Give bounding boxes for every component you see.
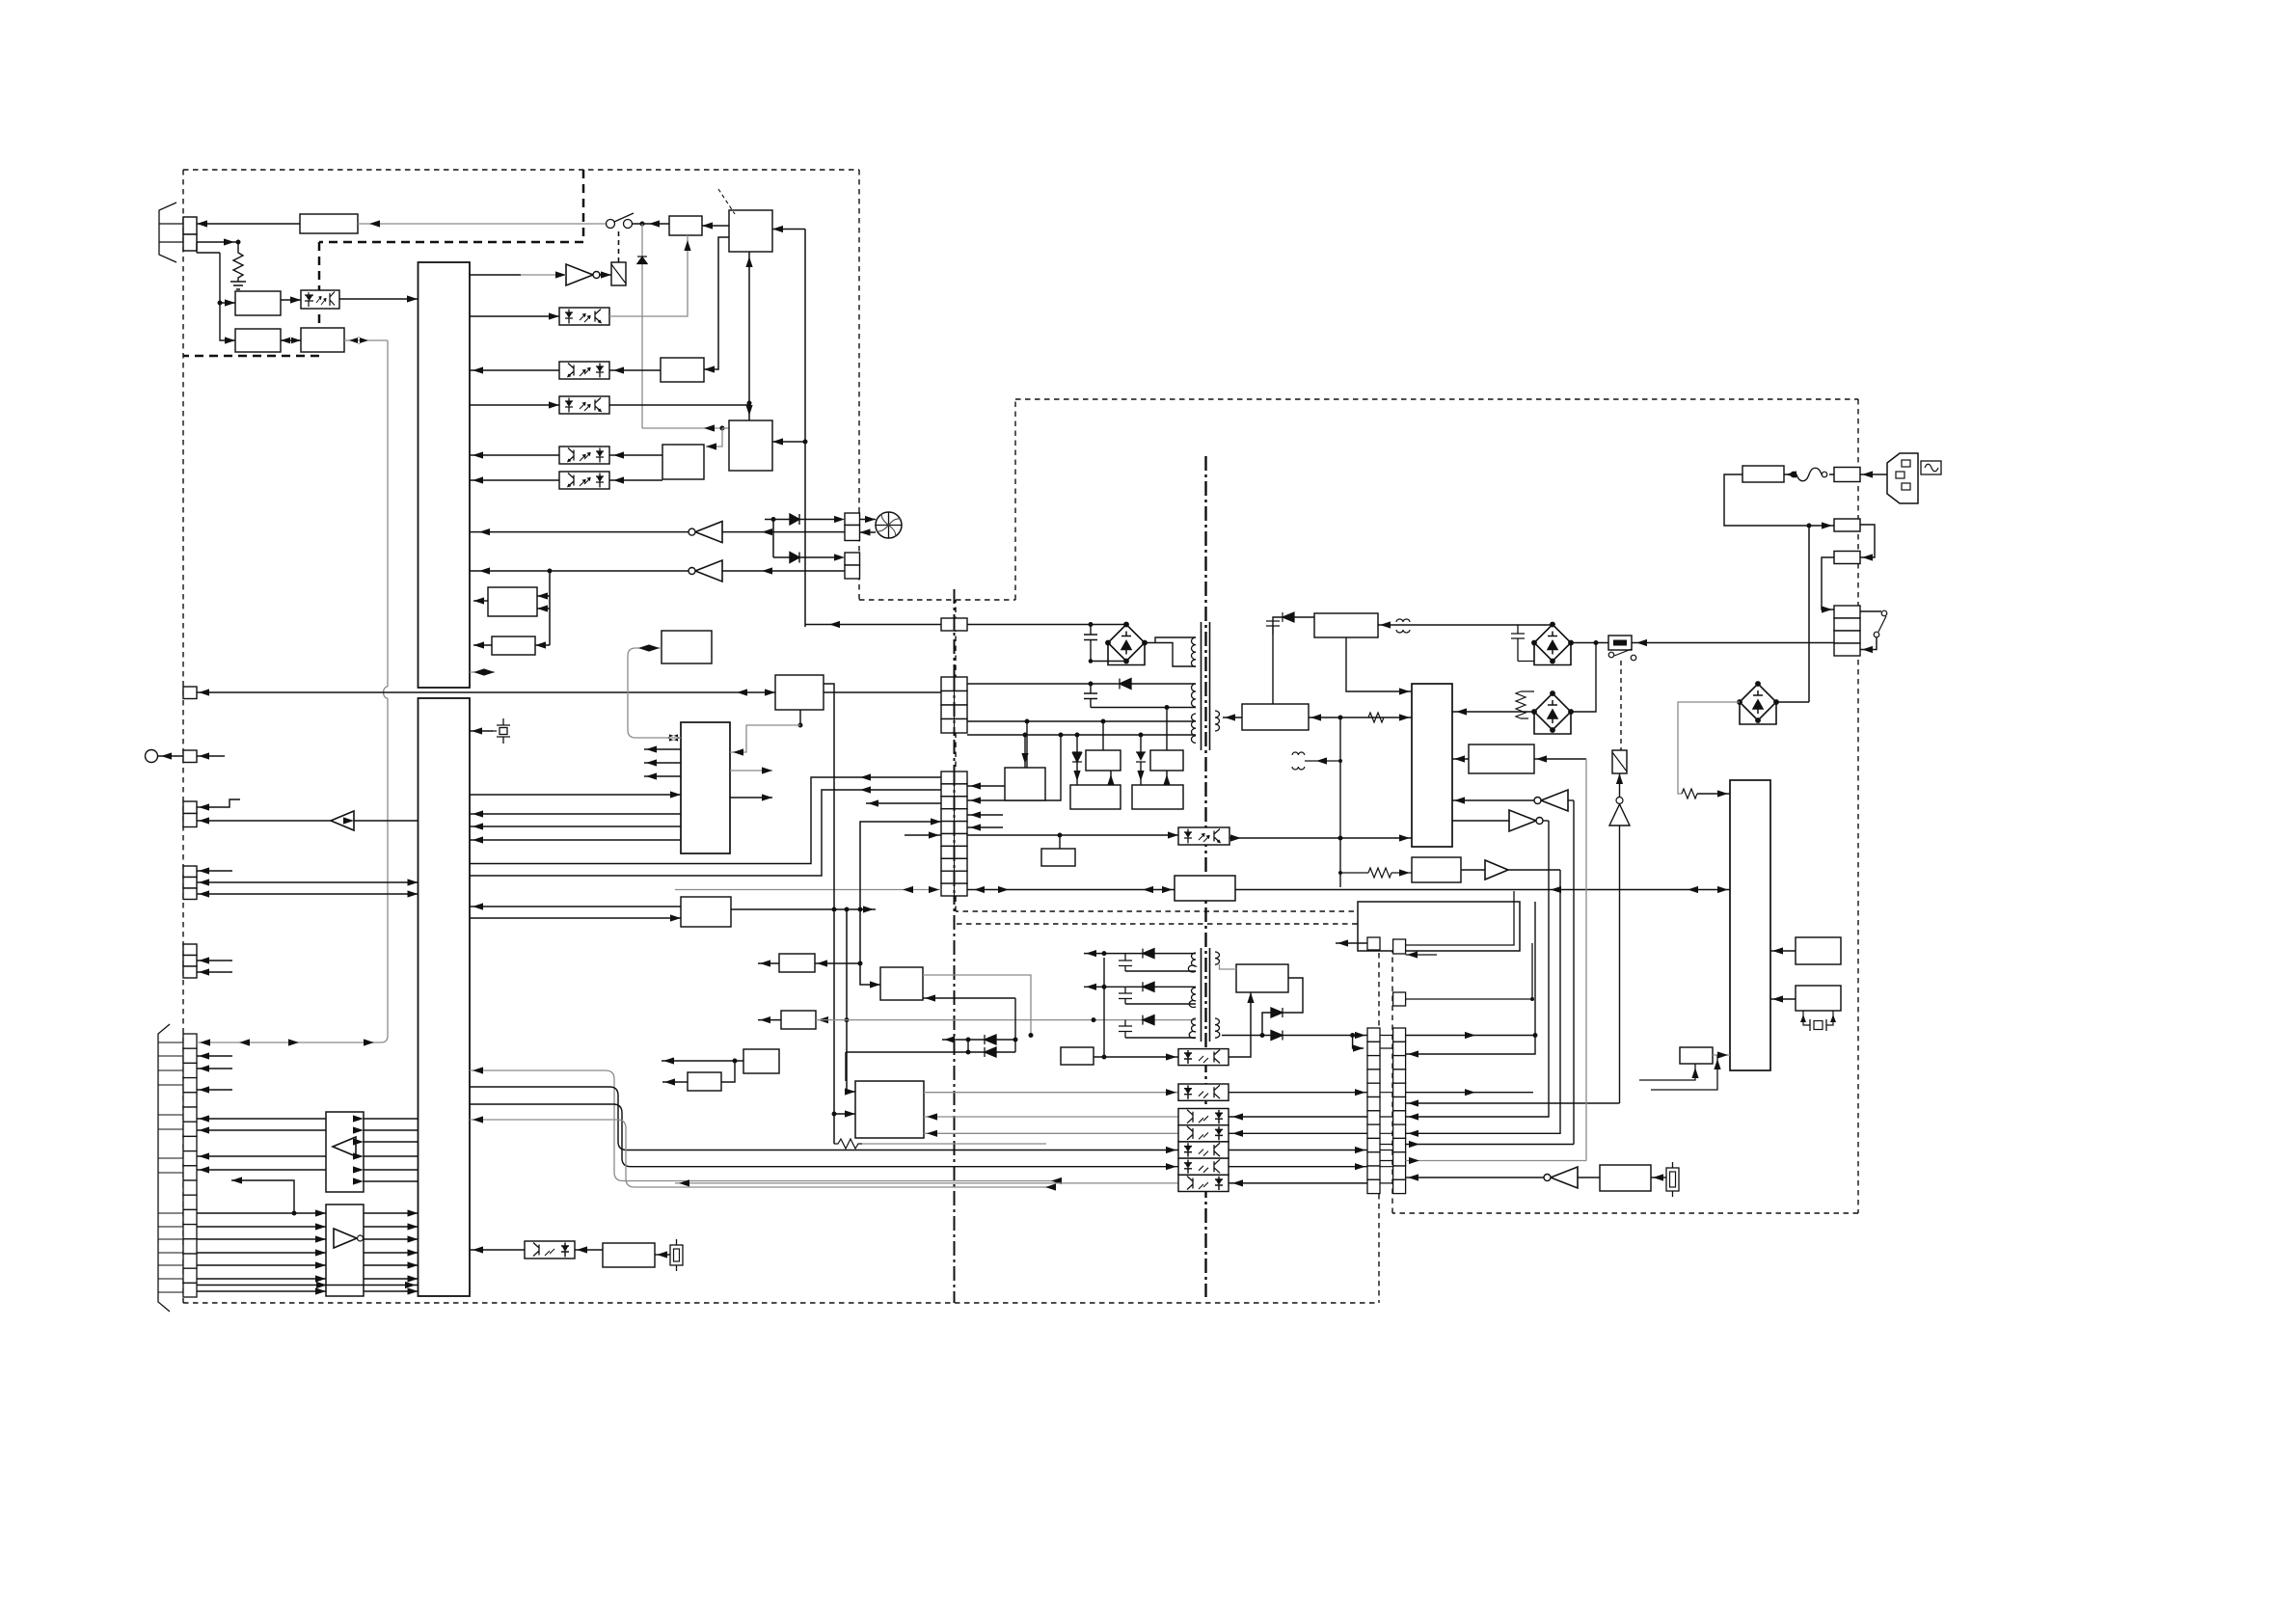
AC line to bridge BR2	[1571, 642, 1608, 644]
opto PC13	[1178, 1125, 1229, 1142]
hook switch SW1	[607, 220, 615, 229]
resonator CR2	[655, 1254, 670, 1256]
BR4 gray feed to box T	[1678, 702, 1740, 794]
resistor R-ring vertical	[233, 242, 243, 282]
opto PC6	[559, 472, 609, 489]
wire MPU to PC4	[470, 404, 559, 406]
wire into D1b right	[923, 997, 1015, 999]
connector CN8 AC cell	[941, 618, 967, 631]
connector CN2 cell	[183, 687, 197, 699]
gray riser from CN10	[1406, 759, 1586, 1161]
wire SP1 to PC1	[281, 299, 301, 301]
AC source symbol	[1921, 461, 1941, 474]
U11 output lines to CN7	[197, 1119, 326, 1170]
column link wires	[1380, 1036, 1393, 1183]
wire PC7 node into PB	[1340, 837, 1412, 839]
box M (line driver)	[775, 675, 824, 710]
door switch SW2	[1608, 652, 1614, 658]
power board dashed bottom right segment	[1392, 1212, 1858, 1214]
gray out to opto2	[924, 1092, 1178, 1094]
box Y1	[603, 1243, 655, 1267]
opto1 feed line	[1094, 1056, 1178, 1058]
CN10 out row1	[1406, 1035, 1535, 1037]
wire CN8 to W2 with diode	[967, 683, 1196, 685]
dogleg B to CN8 row2	[470, 790, 941, 876]
CN8 row3 stub	[866, 802, 941, 804]
motor driver box D2b	[855, 1081, 924, 1138]
connector CN7 cells	[183, 1034, 197, 1297]
T2 snubber row A	[1084, 953, 1196, 955]
relay RL1	[611, 262, 626, 285]
diode D9	[1271, 1008, 1283, 1017]
rail A resistor tail	[834, 1139, 862, 1149]
diode feed line row 1	[765, 519, 837, 521]
wire inverter to relay RL1	[599, 274, 611, 276]
gray branch down to opto row D	[706, 428, 722, 447]
wire U5 to PC3	[609, 369, 661, 371]
connector CN11 cells	[1834, 606, 1860, 656]
box R3 (sub regulator)	[1236, 964, 1288, 992]
wire F4 to live rail	[1724, 474, 1834, 526]
dashed link to relay RL2	[1620, 661, 1622, 750]
relay RL2	[1612, 750, 1627, 773]
connector CN10 top cell	[1393, 939, 1406, 954]
transformer T1 core	[1202, 622, 1210, 750]
G2 left stubs	[644, 749, 681, 776]
capacitor C6	[1084, 625, 1097, 662]
opto PC3 (ring detect)	[559, 362, 609, 379]
T2 snubber row B	[1084, 986, 1196, 988]
dogleg from U11 to U12 input	[231, 1180, 294, 1213]
inverter U14	[1452, 820, 1509, 822]
box P2	[1150, 750, 1183, 771]
gray in from opto3	[924, 1116, 1178, 1118]
connector CN8 group3 cells	[941, 771, 967, 896]
long rail line	[675, 889, 941, 891]
box Q2	[781, 1011, 816, 1029]
power switch SW3	[1860, 610, 1881, 612]
connector CN4 cells	[183, 801, 197, 814]
fuse FU1	[1796, 468, 1822, 481]
wire U2 left edge down to box3	[704, 237, 729, 369]
big box U2 (modem/codec)	[729, 210, 772, 252]
wire CN1 pin2 to ring detect node	[197, 241, 238, 243]
board interconnect dash-dot line	[954, 589, 956, 1303]
box U5 (ring driver)	[661, 358, 704, 382]
opto PC2 (on-hook detect)	[559, 308, 609, 325]
diode D11	[985, 1035, 996, 1044]
wire PC5 to MPU	[470, 454, 559, 456]
line filter box F3	[1834, 468, 1860, 482]
U12 input lines from CN7	[197, 1213, 326, 1291]
box P3	[1070, 785, 1121, 809]
wire C7 to W2 bottom	[1091, 707, 1196, 709]
diode D7	[1072, 752, 1082, 762]
rail from box V right	[731, 908, 876, 910]
gray wire PC2 output up into AMP1	[609, 235, 688, 316]
wire U6 to PC6	[609, 479, 662, 481]
vertical rail B2	[847, 909, 855, 1092]
connector CN8 group2 cells	[941, 677, 967, 733]
box E (filter)	[1314, 613, 1378, 637]
step signal stub into CN4	[197, 799, 240, 807]
capacitor C11	[1511, 625, 1534, 662]
CN7 bracket stubs	[158, 1042, 183, 1292]
box N (regulator)	[1005, 768, 1045, 800]
dashed jog to power board	[859, 399, 1015, 600]
opto PC14	[1178, 1142, 1229, 1158]
rail A tap to driver	[834, 1113, 855, 1115]
bus line to opto6	[470, 1104, 1178, 1167]
power block PB	[1412, 684, 1452, 847]
thermal fuse F2	[1608, 636, 1632, 650]
line B to G2	[470, 794, 681, 796]
box X2 (drive)	[1412, 857, 1461, 882]
buffer array U11	[326, 1112, 364, 1192]
T2 winding W7	[1189, 1018, 1196, 1039]
terminal ring	[146, 750, 158, 763]
opto PC5	[559, 447, 609, 464]
wire fan to cell	[860, 519, 877, 521]
inv2 drop into CN10	[1406, 821, 1549, 1117]
CN5 line 3	[197, 893, 419, 895]
transformer T2 core	[1202, 948, 1210, 1042]
wire U6 to PC5	[609, 454, 662, 456]
wire R3 loop to diode	[1283, 978, 1303, 1013]
inverter U8 line to MPU	[470, 570, 691, 572]
wires BR1 to T1 primary	[1145, 637, 1196, 666]
left board dashed left edge	[182, 170, 184, 1303]
big box U4 (speaker amp)	[729, 420, 772, 471]
box U (shunt reg)	[1041, 849, 1075, 866]
T1 winding W1	[1191, 637, 1196, 666]
inverter U3 for relay drive	[566, 264, 600, 285]
secondary board dashed right edge	[1378, 924, 1380, 1303]
ground	[230, 282, 246, 289]
bidir stub K2 left	[635, 647, 662, 649]
box U9	[488, 587, 537, 616]
diode D2	[790, 514, 799, 525]
choke CH2	[1396, 619, 1410, 633]
wire V1 to CN8 AC cell	[805, 624, 941, 626]
wire into CN3	[197, 755, 225, 757]
T2 winding W6	[1189, 988, 1196, 1008]
isolation barrier dash-dot line	[1204, 456, 1206, 1297]
gray return from opto7	[675, 1182, 1178, 1184]
bottom dashed edge	[183, 1302, 1379, 1304]
annotation pointer	[718, 189, 735, 214]
connector CN6 cells	[183, 944, 197, 956]
box U6 (speaker driver)	[662, 445, 704, 479]
box W (feedback coupler)	[1175, 876, 1235, 901]
box R1	[1796, 937, 1841, 964]
T1 winding W4	[1215, 711, 1220, 731]
CN7 short stubs	[197, 1056, 232, 1090]
power board dashed top edge	[1015, 398, 1858, 400]
T2 winding W9 right	[1215, 952, 1220, 964]
tall box T (motor power)	[1730, 780, 1770, 1070]
connector CN10 single cell	[1393, 992, 1406, 1006]
box Q1	[779, 954, 815, 972]
diode D15	[1143, 1015, 1154, 1025]
filter box FL1	[300, 214, 358, 233]
capacitor C8	[1119, 954, 1132, 971]
filter box F4	[1742, 466, 1784, 482]
box AMP1	[669, 216, 702, 235]
left board dashed box top edge	[183, 169, 859, 171]
capacitor C7	[1084, 684, 1097, 708]
relay drive buffer	[1619, 773, 1621, 797]
wire B1 right to rail	[1309, 717, 1412, 718]
box K2 (reset ic)	[662, 631, 712, 663]
CN5 line 2	[197, 881, 419, 883]
wire FL1 from line driver (long gray)	[358, 223, 606, 225]
opto1 out to R3	[1229, 992, 1251, 1057]
connector CN9 column	[1367, 1028, 1380, 1194]
thermistor TH1	[1666, 1162, 1679, 1197]
BR3 to main line	[1571, 643, 1596, 713]
CN5 stub	[197, 870, 232, 872]
zigzag resistor R7	[1516, 691, 1526, 718]
opto PC4	[559, 396, 609, 414]
arrow P4 to P2	[1166, 771, 1168, 785]
bidir wire SP2-SP3	[281, 339, 301, 341]
wires B to box V	[470, 907, 681, 918]
box A2	[688, 1072, 721, 1091]
wire C6 to BR1 bottom	[1091, 661, 1126, 663]
snubber cap/diode at box E left	[1273, 617, 1314, 704]
connector CN1 bracket	[159, 203, 176, 262]
opto PC10	[1178, 1049, 1229, 1066]
link down to diode row 2	[772, 520, 774, 558]
wire PC7 out	[1229, 837, 1340, 839]
hop over main bus line	[384, 687, 389, 698]
rail CN8 to box W	[967, 889, 1175, 891]
rail box W to power block	[1235, 889, 1730, 891]
box SP1 (surge absorber)	[235, 291, 281, 315]
wire M bottom to G2	[799, 710, 801, 725]
gray in from opto4	[924, 1132, 1178, 1134]
wire CN8 to bridge BR1 top	[967, 624, 1126, 626]
box Z (thermostat)	[1600, 1165, 1651, 1191]
node after switch	[632, 223, 669, 225]
G2 right stubs	[730, 770, 772, 771]
box L2	[1680, 1047, 1713, 1064]
box SP2	[235, 329, 281, 352]
diode D10	[1271, 1031, 1283, 1041]
power board dashed right edge	[1857, 399, 1859, 1213]
gray riser from SP3 down the page	[387, 340, 389, 1036]
return wire W3 to CN8 row	[967, 721, 1061, 800]
gray wire W9 to R3	[1220, 964, 1237, 969]
power board dashed bottom left segment	[956, 600, 1392, 911]
box P4	[1132, 785, 1183, 809]
box B1 (pwm control)	[1242, 704, 1309, 730]
opto PC11	[1178, 1084, 1229, 1100]
noise filter G4	[1834, 552, 1860, 564]
BR3 output to PB	[1452, 711, 1534, 713]
connector CN5 cells	[183, 866, 197, 878]
bridge rectifier BR4	[1738, 682, 1778, 724]
gray loop bundle line 1	[470, 1070, 1054, 1181]
wire CN8 to W3 top	[967, 720, 1196, 722]
dogleg to second cell	[1353, 1036, 1364, 1049]
charge line row 1	[942, 1039, 1015, 1041]
box SP3 (line transformer)	[301, 328, 344, 352]
bridge rectifier BR3	[1532, 691, 1573, 734]
wire node to SP1	[197, 242, 235, 303]
wire MPU to PC2	[470, 315, 559, 317]
wire bigbox1 to AMP1	[702, 225, 729, 227]
vertical rail A from box M	[824, 684, 834, 1144]
CN6 stubs	[197, 961, 232, 972]
bus line to opto5	[470, 1087, 1178, 1150]
lines G2 to B	[470, 814, 681, 840]
bridge rectifier BR1	[1106, 622, 1147, 664]
T2 snubber row C	[1092, 1017, 1096, 1022]
diode D3	[790, 553, 799, 563]
diode D14	[1143, 982, 1154, 991]
arrow P3 to P1	[1110, 771, 1112, 785]
resistor R5	[1368, 713, 1384, 722]
gray wire to big box2	[642, 427, 722, 429]
wire PC6 to MPU	[470, 479, 559, 481]
wire D7 chain	[1076, 735, 1078, 785]
U12 output lines to gate array	[364, 1213, 419, 1291]
crystal X3 under R2	[1803, 1011, 1833, 1025]
opto PC15	[1178, 1158, 1229, 1175]
power board dashed inner right edge	[1391, 911, 1393, 1213]
T2 winding W8 right	[1215, 1018, 1220, 1038]
buffer drop into CN10	[1406, 870, 1560, 1133]
feedback rail vertical	[1339, 717, 1341, 887]
diode D1 on hook line	[641, 224, 643, 428]
bidir wire CN7 row1 to riser	[197, 1036, 388, 1042]
connector CN1 cells	[183, 217, 197, 234]
capacitor C10	[1119, 1020, 1132, 1038]
BR4 live feed	[1776, 701, 1809, 703]
connector CN10 column	[1393, 1028, 1406, 1194]
T2 winding W5	[1188, 953, 1196, 972]
relay buffer line into CN10	[1406, 1102, 1620, 1104]
opto PC12	[1178, 1109, 1229, 1125]
fan motor	[876, 512, 902, 538]
U11 input lines from gate array	[364, 1119, 419, 1181]
thermistor sense row	[1406, 1177, 1547, 1178]
sub output line	[1222, 1035, 1367, 1037]
connector CN7 bracket	[158, 1024, 170, 1312]
wire PC4 output to U2/U4 node	[609, 404, 749, 406]
box A1	[743, 1049, 779, 1073]
opto PC17 row	[525, 1241, 575, 1259]
crystal X1	[470, 718, 510, 744]
gray link K2 to G2	[628, 648, 681, 738]
T1 winding W2	[1192, 684, 1196, 707]
noise filter G3	[1834, 519, 1860, 531]
aux choke below B1	[1292, 752, 1305, 770]
box K3	[1061, 1047, 1094, 1065]
gray wire D1b out	[923, 975, 1031, 1036]
box E down to power block	[1346, 637, 1412, 691]
CN8 right stubs	[967, 815, 1003, 827]
wire B1 to T1 aux winding	[1223, 717, 1242, 718]
wire V1 from U2 right edge down	[772, 230, 805, 628]
wire M to CN8	[824, 691, 941, 693]
wire plug to line filter	[1860, 474, 1887, 475]
fan connector cells	[845, 513, 860, 526]
live rail down	[1808, 526, 1810, 702]
CN10 out row2	[1406, 1092, 1533, 1094]
box D (relay unit)	[1358, 902, 1520, 951]
capacitor C9	[1119, 987, 1132, 1004]
branch from U8 line down to boxes	[549, 571, 551, 645]
wire node to SP2	[220, 303, 235, 340]
wire PC1 to MPU	[339, 298, 418, 300]
connector CN3 cell	[183, 750, 197, 763]
diode feed line row 2	[773, 556, 837, 558]
diode D12	[985, 1047, 996, 1057]
wire ring terminal	[158, 755, 184, 757]
left board dashed right edge	[858, 170, 860, 600]
opto PC1	[301, 290, 339, 309]
main AC line	[1632, 642, 1834, 644]
wire D8 chain	[1140, 735, 1142, 785]
box E2 (osc)	[1469, 744, 1534, 773]
vertical rail B from CN8 row4	[860, 822, 941, 985]
AC plug	[1887, 453, 1918, 503]
secondary board dashed top edge	[957, 923, 1379, 925]
gray stub block A bidir	[470, 671, 495, 673]
wire CN7 bottom to gate array	[197, 1285, 419, 1286]
resistor R6 feed to X2	[1340, 872, 1412, 874]
box U10	[492, 636, 535, 655]
dogleg B to CN8 row1	[470, 777, 941, 864]
gate array G2	[681, 722, 730, 853]
box R2	[1796, 986, 1841, 1011]
charge line row 2	[846, 1051, 1015, 1053]
driver box D1b	[880, 967, 923, 1000]
wire CN8 to W3 bottom	[967, 734, 1196, 736]
node V1 to U4 right edge	[803, 440, 808, 445]
buffer T1	[197, 820, 331, 822]
inv1 riser from CN10	[1406, 800, 1574, 1145]
dashed mech link RL1 to SW1	[618, 231, 620, 262]
inverter U7 line to MPU	[470, 531, 691, 533]
main bus line to CN2	[197, 691, 775, 693]
gray wire Q2 row to T2	[816, 1019, 1196, 1021]
box P1	[1086, 750, 1121, 771]
connector CN9 top cell	[1367, 937, 1380, 950]
inverter U13	[1452, 799, 1537, 801]
bold dashed TEL boundary	[183, 170, 583, 356]
snubber line to box E	[1378, 624, 1553, 627]
box V (power monitor)	[681, 897, 731, 927]
diode D13	[1143, 949, 1154, 959]
bridge rectifier BR2	[1532, 622, 1573, 664]
diode D6	[1120, 679, 1131, 690]
bidir wire SP3 to gray riser	[344, 339, 388, 341]
gray loop bundle line 2	[470, 1120, 1048, 1187]
opto PC7 (error feedback)	[967, 834, 1178, 836]
T1 winding W3	[1191, 714, 1196, 743]
wire opto-C node up into U2 and down into U4	[748, 252, 750, 420]
buffer array U12	[326, 1204, 364, 1296]
board line overlay through CN8	[954, 618, 956, 896]
diode D8	[1136, 752, 1146, 762]
wire PC3 to MPU	[470, 369, 559, 371]
hook drop x1592	[1406, 902, 1535, 1054]
opto PC16	[1178, 1175, 1229, 1191]
